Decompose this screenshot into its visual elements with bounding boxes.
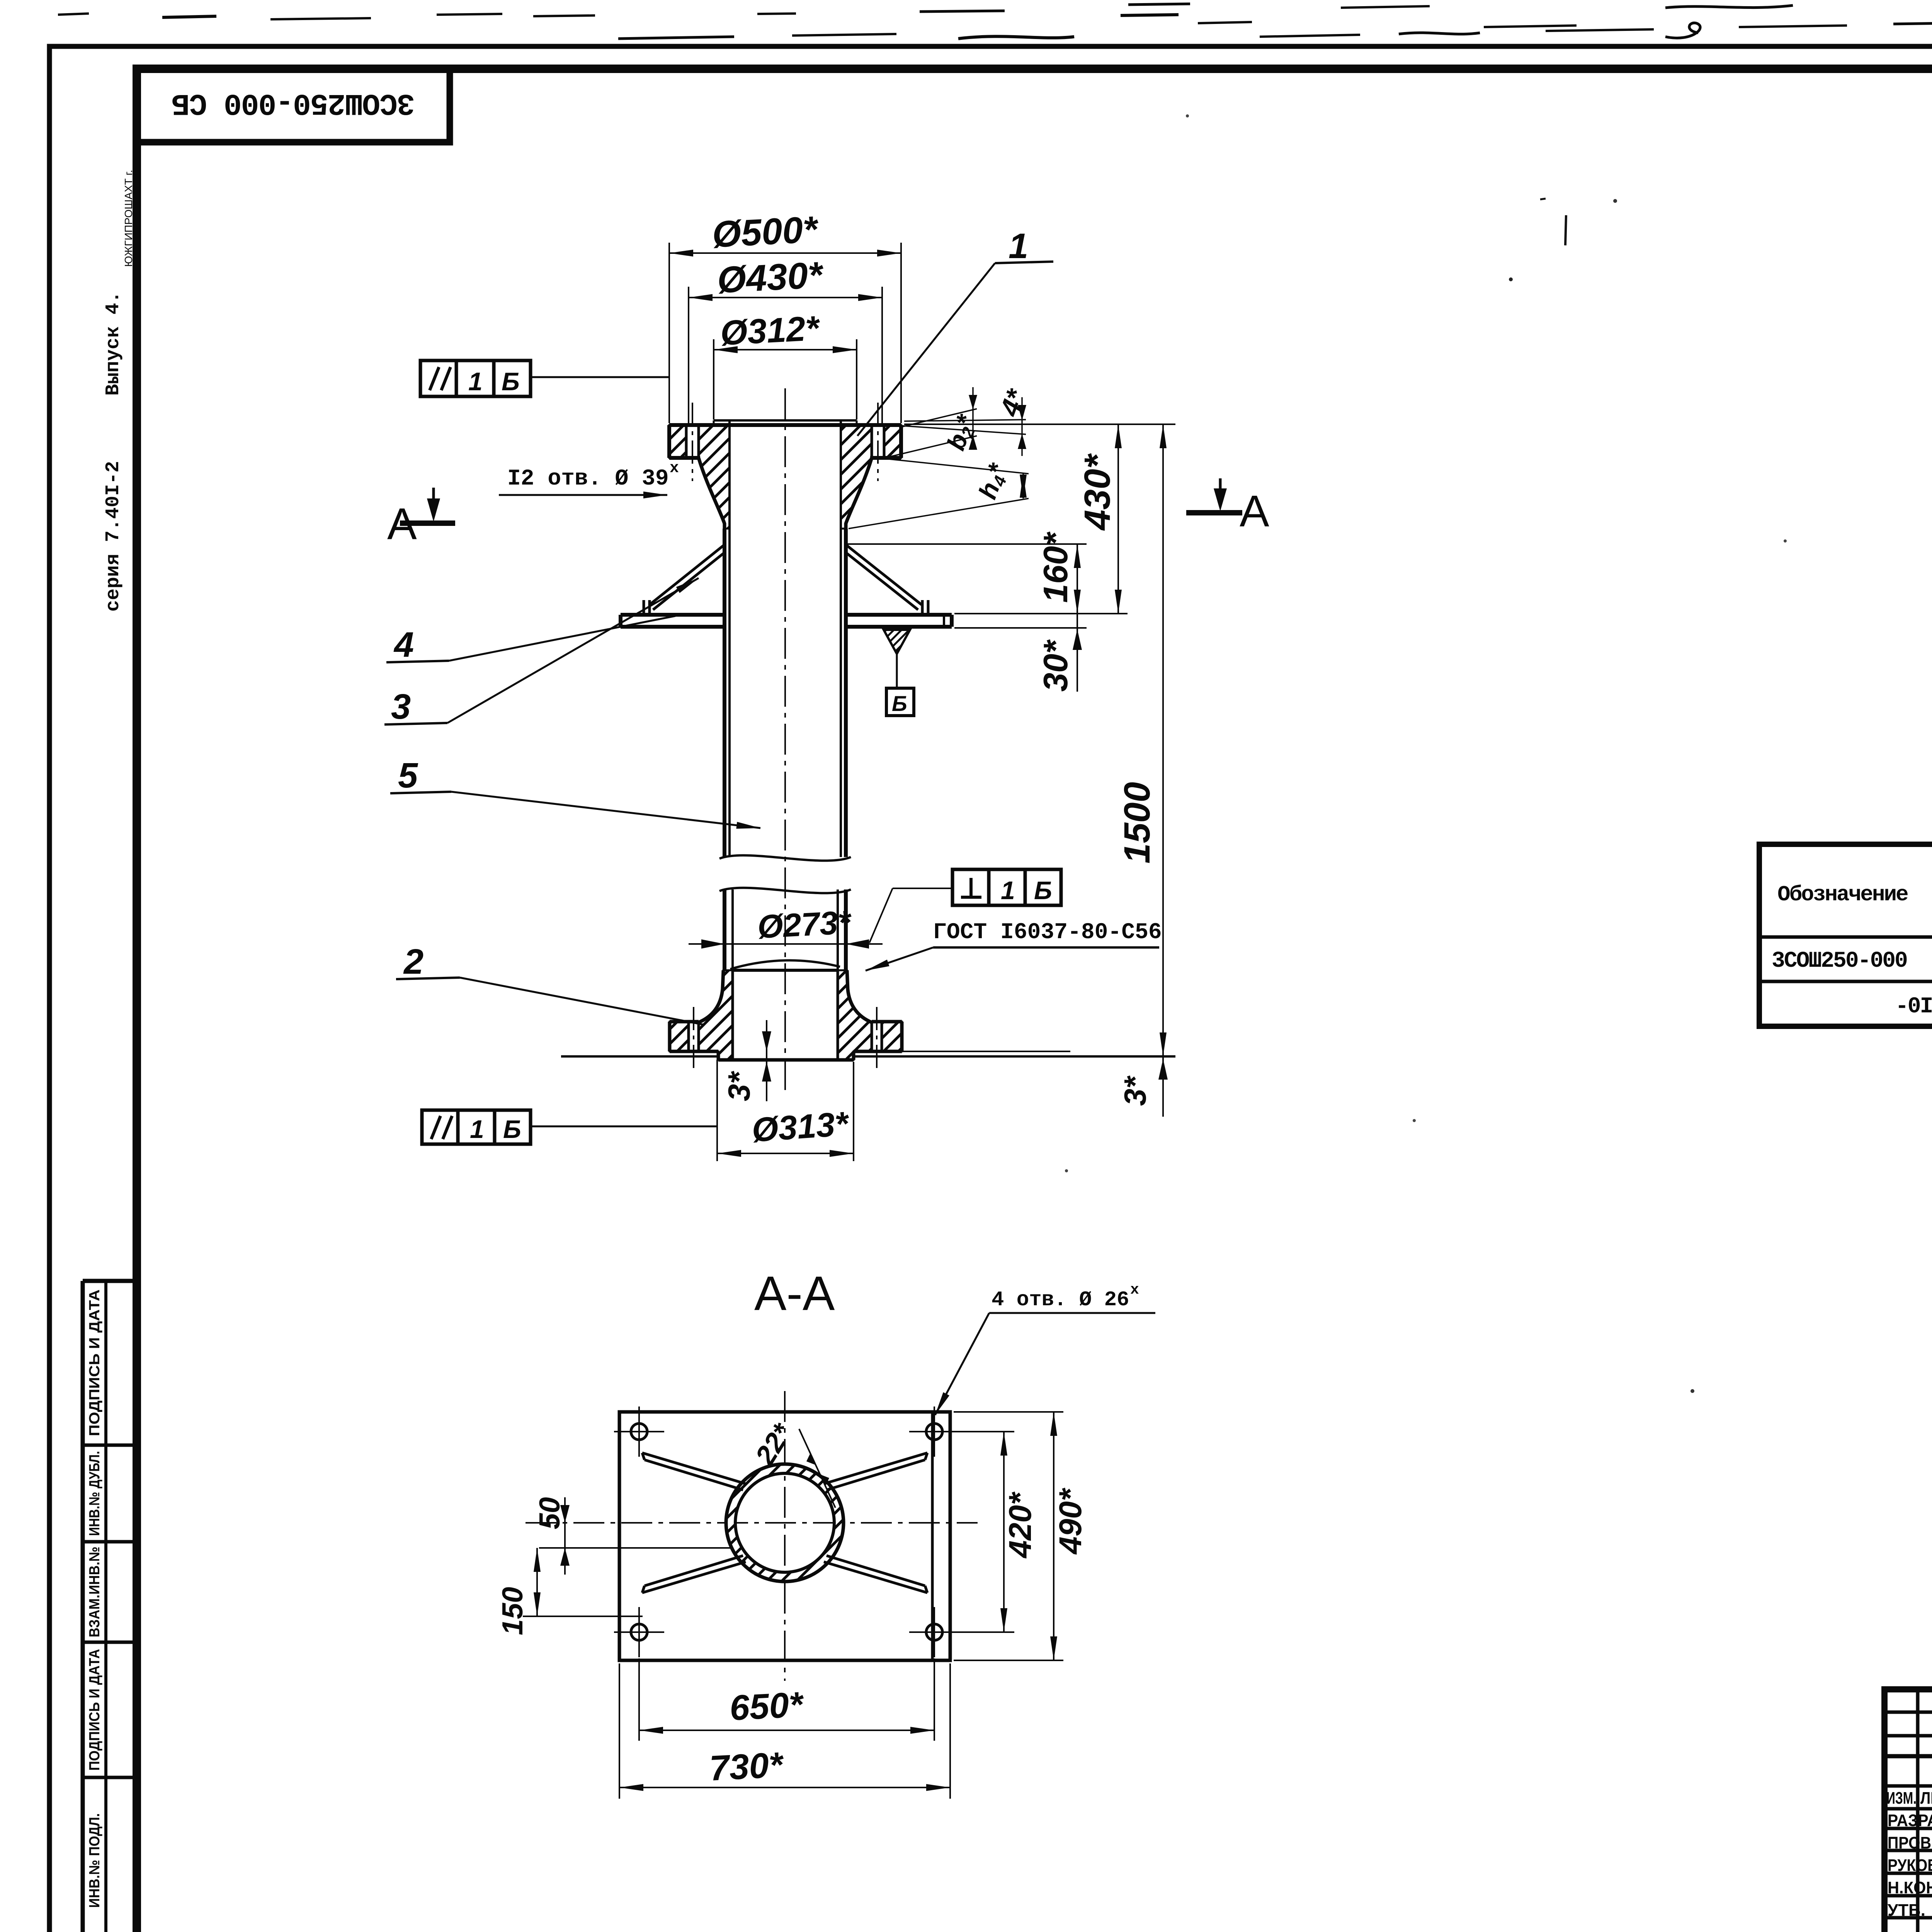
svg-text:5: 5 xyxy=(398,756,418,795)
svg-text:2: 2 xyxy=(403,942,423,981)
svg-text:650*: 650* xyxy=(729,1685,806,1728)
svg-text:Обозначение: Обозначение xyxy=(1777,882,1908,907)
svg-text:ИЗМ.: ИЗМ. xyxy=(1886,1789,1917,1808)
svg-text:430*: 430* xyxy=(1077,453,1118,531)
svg-text:РАЗРАБ.: РАЗРАБ. xyxy=(1888,1811,1932,1830)
svg-text:ИНВ.№ ДУБЛ.: ИНВ.№ ДУБЛ. xyxy=(87,1451,103,1536)
svg-text:160*: 160* xyxy=(1036,531,1075,603)
svg-text:х: х xyxy=(1130,1282,1139,1298)
svg-text:-0I: -0I xyxy=(1895,994,1932,1019)
svg-text:3СОШ250-000: 3СОШ250-000 xyxy=(1772,949,1907,974)
svg-text:1: 1 xyxy=(468,367,483,396)
svg-text:ВЗАМ.ИНВ.№: ВЗАМ.ИНВ.№ xyxy=(87,1547,103,1638)
svg-text:3СОШ250-000 СБ: 3СОШ250-000 СБ xyxy=(172,86,415,120)
svg-text:Выпуск 4.: Выпуск 4. xyxy=(102,291,124,396)
svg-text:ПОДПИСЬ И ДАТА: ПОДПИСЬ И ДАТА xyxy=(87,1289,103,1436)
svg-text:4*: 4* xyxy=(994,385,1032,421)
svg-text:3: 3 xyxy=(391,687,411,726)
svg-text:1: 1 xyxy=(1009,226,1028,266)
svg-text:ПРОВ.: ПРОВ. xyxy=(1888,1833,1932,1852)
svg-text:1500: 1500 xyxy=(1117,782,1158,864)
svg-text:Б: Б xyxy=(502,367,520,396)
svg-text:А: А xyxy=(1240,486,1269,536)
svg-text:Н.КОНТР.: Н.КОНТР. xyxy=(1888,1878,1932,1897)
svg-text:Ø430*: Ø430* xyxy=(716,254,825,301)
svg-text:3*: 3* xyxy=(722,1071,756,1101)
svg-text:Ø500*: Ø500* xyxy=(711,209,820,255)
svg-text:30*: 30* xyxy=(1036,639,1075,692)
svg-text:Ø312*: Ø312* xyxy=(719,309,821,353)
svg-text:Б: Б xyxy=(503,1115,521,1143)
svg-text:х: х xyxy=(670,460,679,477)
svg-text:730*: 730* xyxy=(709,1745,786,1788)
svg-text:А-А: А-А xyxy=(754,1267,835,1320)
svg-text:Б: Б xyxy=(892,691,907,716)
svg-text:h4*: h4* xyxy=(973,459,1014,503)
svg-text:1: 1 xyxy=(470,1115,484,1143)
svg-text:ГОСТ I6037-80-С56: ГОСТ I6037-80-С56 xyxy=(933,920,1162,945)
svg-text:РУКОВ.: РУКОВ. xyxy=(1888,1856,1932,1875)
svg-text:4 отв. Ø 26: 4 отв. Ø 26 xyxy=(992,1288,1129,1312)
svg-text:ИНВ.№ ПОДЛ.: ИНВ.№ ПОДЛ. xyxy=(87,1813,103,1908)
svg-text:490*: 490* xyxy=(1053,1487,1088,1555)
svg-text:420*: 420* xyxy=(1003,1491,1038,1559)
svg-text:ПОДПИСЬ И ДАТА: ПОДПИСЬ И ДАТА xyxy=(87,1649,103,1771)
svg-text:I2 отв. Ø 39: I2 отв. Ø 39 xyxy=(507,466,669,492)
svg-text:УТВ.: УТВ. xyxy=(1888,1901,1925,1920)
svg-text:3*: 3* xyxy=(1118,1075,1152,1106)
svg-text:А: А xyxy=(387,499,417,549)
svg-text:Б: Б xyxy=(1034,876,1052,905)
svg-text:150: 150 xyxy=(496,1587,529,1635)
svg-text:Ø273*: Ø273* xyxy=(757,904,853,946)
svg-text:серия 7.40I-2: серия 7.40I-2 xyxy=(102,461,124,612)
svg-text:ЛИСТ: ЛИСТ xyxy=(1920,1789,1932,1808)
svg-text:ЮЖГИПРОШАХТ г.: ЮЖГИПРОШАХТ г. xyxy=(122,170,134,267)
svg-text:Ø313*: Ø313* xyxy=(750,1104,851,1149)
svg-text:1: 1 xyxy=(1001,876,1015,905)
svg-text:4: 4 xyxy=(393,625,414,665)
svg-text:50: 50 xyxy=(533,1497,566,1529)
